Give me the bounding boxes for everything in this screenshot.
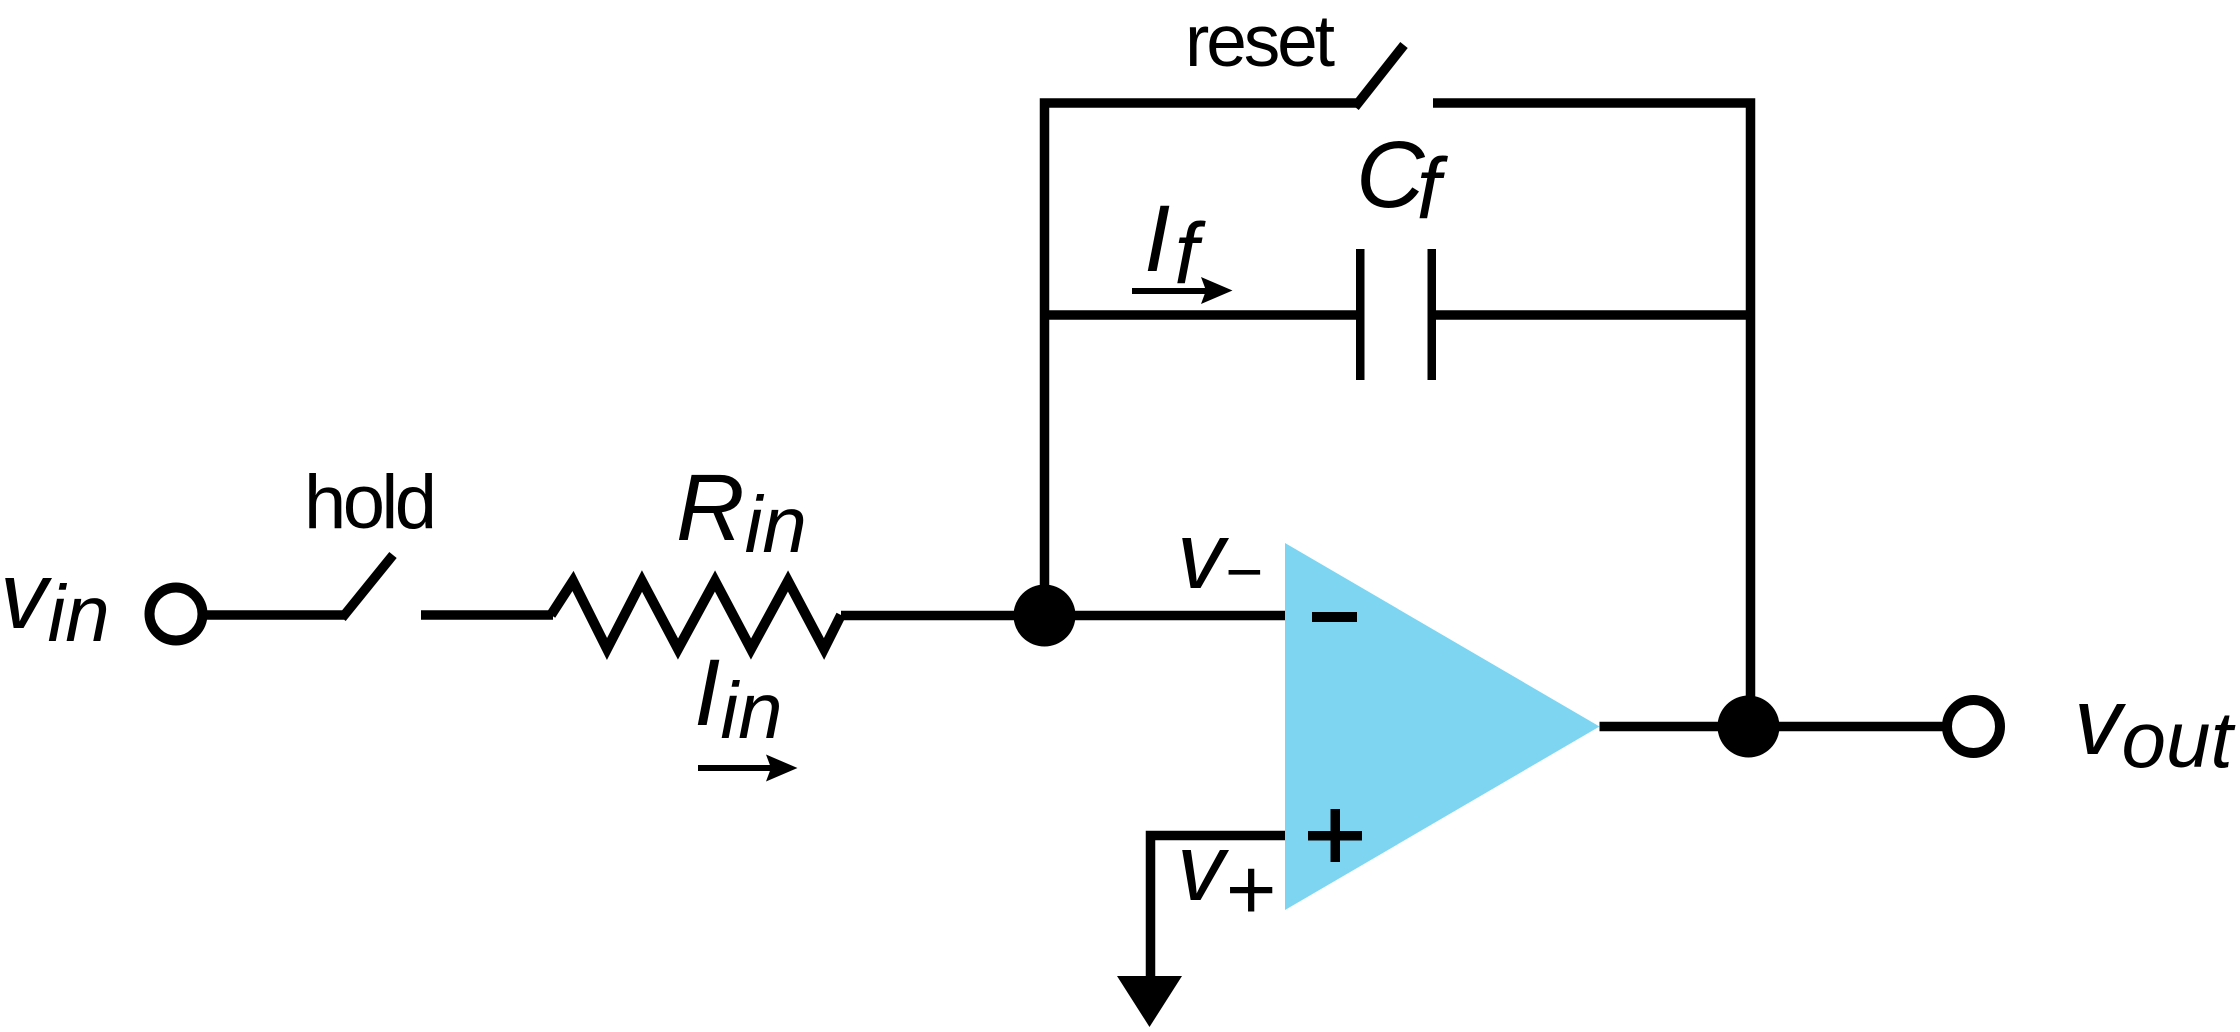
wire feedback left vertical and top horizontal bbox=[1045, 103, 1358, 618]
arrow If bbox=[1132, 288, 1207, 294]
node vout terminal bbox=[1947, 700, 2000, 753]
svg-text:Iin: Iin bbox=[694, 640, 783, 755]
op-amp minus sign bbox=[1312, 612, 1357, 622]
svg-text:hold: hold bbox=[304, 460, 437, 545]
ground bbox=[1117, 976, 1182, 1027]
wire resistor to op-amp inverting input bbox=[841, 611, 1285, 621]
wire op-amp non-inverting input to ground bbox=[1151, 836, 1286, 978]
op-amp plus sign bbox=[1308, 831, 1362, 841]
svg-text:Cf: Cf bbox=[1356, 122, 1449, 237]
switch reset (blade) bbox=[1355, 45, 1404, 107]
switch hold (blade) bbox=[342, 555, 393, 618]
svg-text:vin: vin bbox=[0, 543, 110, 658]
wire op-amp output bbox=[1600, 722, 1944, 732]
node output junction bbox=[1718, 696, 1780, 758]
op-amp U1 bbox=[1285, 543, 1600, 910]
svg-text:vout: vout bbox=[2074, 669, 2235, 784]
wire capacitor branch right bbox=[1436, 310, 1750, 320]
capacitor Cf bbox=[1356, 249, 1365, 380]
svg-text:reset: reset bbox=[1185, 1, 1335, 82]
wire capacitor branch left bbox=[1045, 310, 1357, 320]
node A inverting input junction bbox=[1014, 585, 1076, 647]
wire top right to output node bbox=[1433, 103, 1751, 727]
resistor Rin bbox=[551, 581, 841, 649]
wire vin to hold switch pivot bbox=[203, 610, 344, 620]
svg-text:v−: v− bbox=[1177, 503, 1262, 609]
svg-text:Rin: Rin bbox=[676, 455, 807, 569]
svg-text:If: If bbox=[1144, 186, 1206, 302]
arrow Iin bbox=[698, 765, 772, 771]
node vin terminal bbox=[150, 588, 203, 641]
wire hold switch to resistor bbox=[421, 610, 553, 620]
